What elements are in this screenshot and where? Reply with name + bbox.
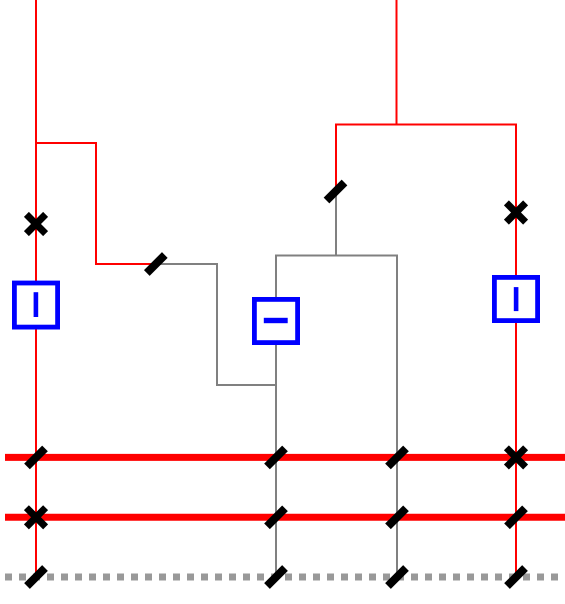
- crossed switch X4 at bus B2 left: [26, 508, 45, 527]
- crossed switch X2 on right branch: [506, 203, 525, 222]
- dashed feeder line: [5, 574, 565, 581]
- wire: tap horizontal to switch S1 (energized): [95, 263, 156, 265]
- wire: left feeder vertical: [35, 0, 37, 577]
- switch S10 (slash) meter leg at dashed line: [267, 568, 285, 586]
- meter M1 (left, vertical bar): [14, 283, 57, 327]
- meter M2 (middle, horizontal bar): [254, 299, 297, 342]
- switch S9 (slash) left feeder at dashed line: [27, 568, 45, 586]
- crossed switch X3 at bus B1 right: [506, 448, 525, 467]
- switch S5 (slash) right gray leg at bus B1: [388, 448, 406, 466]
- wire: right branch vertical: [515, 124, 517, 578]
- wire: tap vertical drop: [95, 142, 97, 264]
- bus bar B2: [5, 514, 565, 521]
- wire: gray horizontal header: [276, 255, 397, 257]
- wire: gray vertical right of meter: [396, 255, 398, 578]
- wire: gray vertical drop: [216, 263, 218, 385]
- wire: top right vertical: [396, 0, 398, 125]
- switch S1 (slash) on tap line: [147, 255, 165, 273]
- wire: branch vertical to switch S2 (energized): [335, 124, 337, 192]
- switch S12 (slash) right feeder at dashed line: [507, 568, 525, 586]
- switch S8 (slash) right feeder at bus B2: [507, 508, 525, 526]
- wire: tap horizontal from left feeder: [35, 142, 96, 144]
- meter M3 (right, vertical bar): [494, 277, 537, 320]
- switch S3 (slash) left feeder at bus B1: [27, 448, 45, 466]
- wire: top right horizontal split: [336, 124, 516, 126]
- switch S4 (slash) meter leg at bus B1: [267, 448, 285, 466]
- bus bar B1: [5, 454, 565, 461]
- switch S6 (slash) meter leg at bus B2: [267, 508, 285, 526]
- switch S11 (slash) right gray leg at dashed line: [388, 568, 406, 586]
- switch S2 (slash) on branch vertical: [327, 183, 345, 201]
- switch S7 (slash) right gray leg at bus B2: [388, 508, 406, 526]
- wire: switch S1 load side (deenergized, gray): [156, 263, 217, 265]
- wire: switch S2 load side vertical (gray): [335, 192, 337, 257]
- wire: gray vertical through meter M2: [275, 255, 277, 578]
- wire: gray horizontal to node: [216, 384, 276, 386]
- crossed switch X1 on left feeder: [26, 214, 45, 233]
